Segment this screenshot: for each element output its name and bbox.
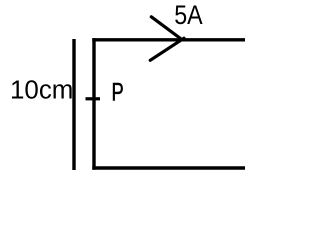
current direction arrow (5A) on top wire: lower arm (150, 38, 184, 60)
wire W1: straight vertical conductor (72, 39, 75, 170)
svg-text:P: P (112, 79, 124, 107)
svg-text:5A: 5A (174, 0, 202, 30)
wire: bottom segment of U-shaped conductor (92, 166, 245, 169)
svg-text:10cm: 10cm (10, 75, 73, 105)
wire: top segment of U-shaped conductor (92, 38, 245, 41)
node P: tick mark on left segment (86, 97, 101, 100)
current direction arrow (5A) on top wire: upper arm (151, 17, 182, 40)
wire: left segment of U-shaped conductor (92, 38, 95, 170)
